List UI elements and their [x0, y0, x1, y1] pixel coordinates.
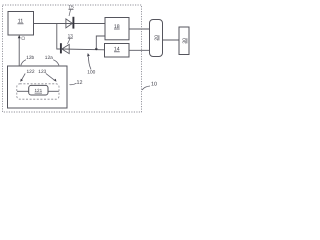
svg-text:10: 10 — [151, 82, 157, 88]
box 18 — [105, 18, 129, 40]
wire from node 100 up into box 18 — [96, 36, 105, 49]
leader for label 12 — [70, 83, 77, 85]
box 12 — [8, 66, 68, 108]
wire from box 20 to box 30 — [163, 39, 180, 41]
outer dashed boundary of device 10 — [3, 5, 142, 112]
svg-text:121: 121 — [34, 88, 42, 93]
svg-text:12a: 12a — [45, 55, 53, 61]
box 30 — [179, 27, 189, 55]
box 11 — [8, 12, 34, 36]
leader for label 10 — [142, 86, 150, 90]
leader for label 13 — [68, 39, 71, 44]
leader for 12b — [21, 60, 26, 66]
wire stub right of 121 — [48, 90, 59, 92]
branch wire down to lower diode line — [57, 24, 62, 50]
diode 13 (cathode bar left, pointing left) — [60, 43, 62, 53]
svg-text:12: 12 — [77, 80, 83, 86]
wire from box 12 up to box 11 with arrowhead — [18, 38, 20, 67]
label 30 (rotated) — [182, 38, 188, 44]
diode 15 (anode left, cathode bar right) — [66, 19, 73, 28]
tiny mark b near arrow — [22, 37, 25, 40]
junction node 100 — [95, 48, 97, 50]
box 20 (rounded) — [150, 20, 163, 57]
wire from box 14 to box 20 — [129, 49, 150, 51]
svg-text:123: 123 — [38, 69, 46, 75]
arrow for 122 — [22, 74, 26, 80]
arrow for 123 — [46, 73, 55, 80]
wire from box 18 to box 20 — [129, 28, 150, 30]
box 121 (rounded) — [29, 85, 48, 95]
svg-text:122: 122 — [26, 69, 34, 75]
arrow for label 100 — [89, 57, 91, 70]
leader for label 15 — [69, 10, 71, 16]
lower wire to box 14 — [62, 48, 105, 51]
svg-text:100: 100 — [87, 70, 95, 76]
leader for 12a — [53, 60, 59, 66]
dashed inner region of 12 — [17, 84, 59, 99]
wire from box 11 to box 18 — [34, 23, 106, 25]
label 20 (rotated) — [154, 35, 160, 41]
box 14 — [105, 44, 130, 58]
wire stub left of 121 — [17, 90, 29, 92]
svg-text:12b: 12b — [26, 55, 34, 61]
